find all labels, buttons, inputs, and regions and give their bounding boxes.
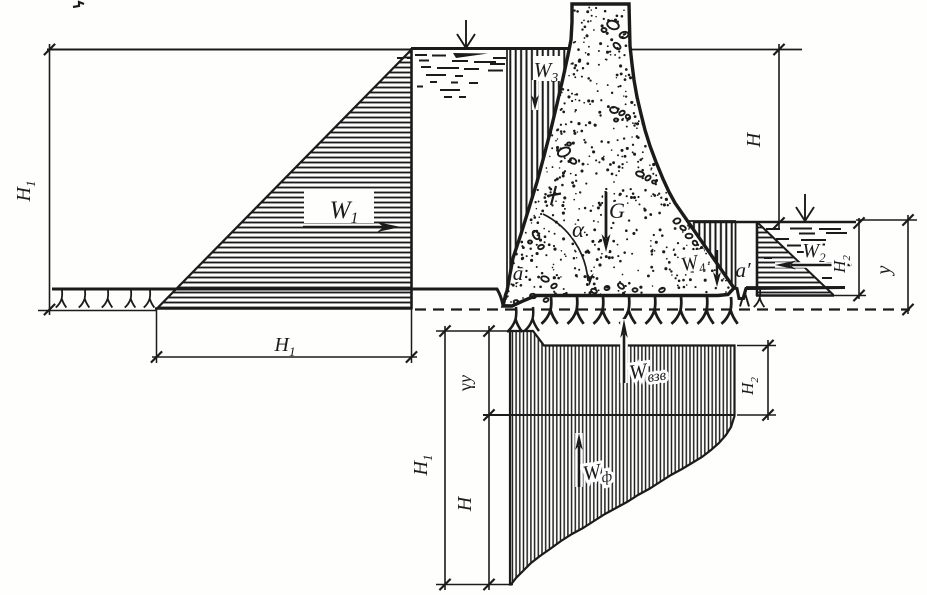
dimension H2 right line	[858, 218, 860, 299]
angle arc alpha	[543, 214, 588, 281]
W4 label whitebox	[678, 249, 708, 274]
ground hatch triangle at toe	[740, 292, 749, 307]
uplift diagram outline	[510, 331, 735, 585]
reservoir water surface dashes	[415, 54, 427, 56]
extension line below W1 left	[156, 309, 158, 363]
force arrow G (dam weight)	[603, 192, 609, 252]
upstream ground line	[52, 289, 503, 306]
W4 right edge	[735, 221, 737, 288]
extension line uplift bottom	[436, 584, 513, 586]
water level symbol downstream (down arrow)	[804, 194, 806, 219]
downstream water dashes	[766, 228, 780, 230]
svg-text:H: H	[454, 495, 476, 512]
extension line y top right	[856, 219, 917, 221]
W3 top edge thick line	[505, 47, 572, 50]
W4 top edge	[689, 220, 736, 222]
ground hatch symbol right bank	[754, 290, 765, 308]
dam outline	[503, 4, 734, 306]
force arrow W1	[303, 226, 383, 229]
force arrow W4	[716, 250, 718, 276]
dimension H1 uplift vertical line	[444, 326, 446, 590]
svg-text:H1: H1	[274, 334, 296, 359]
W3 left boundary line	[506, 49, 508, 291]
reservoir water surface line (thick)	[411, 47, 507, 50]
W2 bottom edge	[756, 294, 834, 297]
dimension H1 upstream vertical line	[49, 44, 51, 315]
pressure diagram W1 hatched triangle	[157, 50, 412, 310]
dam aggregate pebbles	[606, 19, 620, 31]
pressure diagram W2 hatched triangle	[757, 223, 834, 296]
svg-text:H1: H1	[410, 455, 435, 477]
extension line uplift top	[436, 330, 511, 332]
force arrow W2	[775, 262, 852, 267]
extension line below W1 right	[411, 309, 413, 363]
svg-text:a′: a′	[735, 258, 751, 282]
foundation base solid line left	[38, 310, 157, 312]
foundation dashed line	[415, 308, 910, 310]
svg-text:α: α	[572, 217, 585, 242]
dimension H2 toe vertical line	[767, 340, 769, 420]
dam base / downstream ground line with heel and toe notches	[503, 288, 845, 307]
svg-text:H2: H2	[738, 377, 761, 396]
force arrow W3	[532, 80, 538, 110]
extension line H2 toe bottom	[737, 414, 776, 416]
W1 triangle bottom edge	[155, 307, 413, 309]
dam concrete stipple dots	[505, 7, 731, 303]
top reference line right of dam	[632, 49, 802, 51]
downstream water level line	[693, 221, 856, 224]
pressure diagram W3 hatched area (water weight on upstream face)	[507, 40, 572, 291]
W3 label whitebox	[533, 56, 563, 81]
downstream bed line	[746, 286, 845, 289]
upstream water surface reference line	[47, 49, 411, 51]
W1 triangle right edge (pressure plane)	[410, 48, 413, 309]
dimension H vertical line	[778, 44, 780, 228]
scan speck top left	[73, 2, 84, 7]
dimension y right line	[907, 215, 909, 314]
extension line H2 bottom right	[834, 295, 866, 297]
svg-text:G: G	[609, 198, 625, 223]
W1 label whitebox	[304, 191, 374, 223]
dimension gamma-y / H vertical line	[488, 326, 490, 590]
tangent mark t on upstream face	[551, 186, 556, 205]
svg-text:γy: γy	[455, 375, 475, 392]
W1 triangle hypotenuse	[157, 50, 412, 310]
water surface sliver mark	[453, 53, 488, 58]
dam body fill	[503, 4, 734, 306]
force arrow Wvzv (buoyancy)	[620, 319, 628, 383]
svg-text:H: H	[743, 131, 765, 148]
ground hatch symbols under dam base	[541, 297, 557, 324]
pressure diagram W4 hatched area (water on downstream face)	[689, 221, 736, 288]
W2 left edge	[756, 221, 759, 296]
svg-text:H1: H1	[13, 181, 38, 203]
svg-text:y: y	[873, 265, 895, 276]
force arrow Wf (filtration)	[575, 433, 583, 487]
extension line H2 toe top	[737, 345, 776, 347]
ground hatch symbols left bank	[56, 290, 67, 308]
ground hatch symbols at heel notch	[507, 307, 522, 332]
uplift divider line (Wvzv / Wf)	[483, 414, 735, 416]
dimension H1 bottom horizontal	[152, 356, 417, 358]
uplift pressure diagram hatched area	[510, 331, 735, 585]
water level symbol upstream (down arrow)	[465, 20, 467, 47]
svg-text:a: a	[513, 261, 524, 285]
W2 hypotenuse	[758, 223, 834, 295]
